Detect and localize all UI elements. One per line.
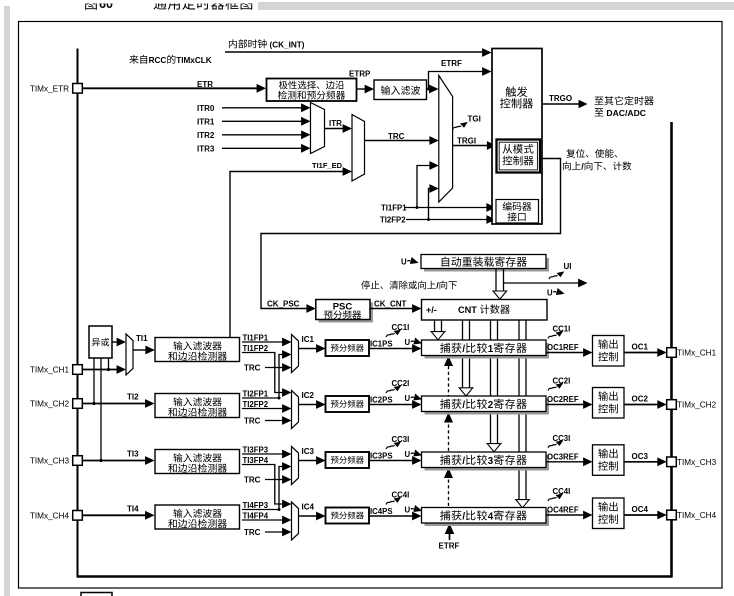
event UI bbox=[549, 271, 564, 279]
wire ITR2 bbox=[222, 134, 304, 136]
mux IC1 selector bbox=[292, 335, 299, 373]
arrow into CCR3 bottom bbox=[444, 468, 453, 478]
pin TIMx_CH4 wire bbox=[82, 514, 147, 516]
wire TI4FP3 bbox=[242, 509, 279, 511]
wire ITR0 bbox=[222, 107, 304, 109]
svg-text:/: / bbox=[462, 512, 465, 523]
wire IC3 bbox=[299, 460, 319, 462]
block prescaler channel 4 预分频器 bbox=[326, 508, 370, 524]
wire ETRF up to trigger controller bbox=[429, 72, 486, 90]
svg-text:3: 3 bbox=[488, 456, 494, 467]
svg-text:U: U bbox=[405, 450, 411, 459]
svg-text:TIMx_CH2: TIMx_CH2 bbox=[677, 401, 717, 410]
arrow into CCR1 bottom bbox=[444, 356, 453, 366]
svg-text:TI1FP1: TI1FP1 bbox=[243, 334, 269, 343]
svg-text:ITR0: ITR0 bbox=[197, 104, 215, 113]
wire TI3FP4 bbox=[242, 465, 285, 505]
event CC1I left bbox=[386, 329, 401, 337]
arrow CNT to CCR3 bbox=[490, 320, 492, 444]
block encoder interface 编码器接口 bbox=[496, 200, 539, 224]
pin TIMx_ETR left bbox=[73, 84, 83, 94]
svg-text:CC2I: CC2I bbox=[553, 377, 571, 386]
wire XOR input from CH1 bbox=[108, 358, 110, 370]
wire IC1PS bbox=[369, 348, 415, 350]
svg-text:4: 4 bbox=[488, 512, 494, 523]
block PSC prescaler bbox=[319, 303, 374, 323]
wire IC2PS bbox=[369, 404, 415, 406]
block input filter 输入滤波 bbox=[374, 80, 427, 100]
arrow CNT to CCR1 bbox=[434, 320, 436, 332]
svg-text:TI3FP3: TI3FP3 bbox=[243, 446, 269, 455]
wire IC4 bbox=[299, 515, 319, 517]
block input filter channel 4 输入滤波器和边沿检测器 bbox=[155, 505, 240, 529]
svg-text:TIMx_CH2: TIMx_CH2 bbox=[30, 400, 70, 409]
event U into CCR3 bbox=[405, 449, 424, 459]
pin TIMx_CH4 left bbox=[73, 511, 83, 521]
label 来自RCC的TIMxCLK bbox=[129, 55, 138, 64]
svg-text:OC4REF: OC4REF bbox=[547, 506, 579, 515]
block polarity selection 极性选择、边沿检测和预分频器 bbox=[267, 79, 357, 102]
pin TIMx_ETR wire ETR bbox=[82, 87, 259, 89]
block capture/compare register 4 捕获/比较4寄存器 bbox=[425, 511, 550, 527]
svg-text:/: / bbox=[462, 344, 465, 355]
svg-text:TRC: TRC bbox=[244, 528, 261, 537]
mux ITR selector bbox=[311, 103, 325, 154]
block trigger controller 触发控制器 bbox=[492, 49, 542, 225]
svg-text:PSC: PSC bbox=[333, 302, 353, 313]
wire TRGI bbox=[453, 145, 490, 147]
svg-text:TI1FP1: TI1FP1 bbox=[381, 204, 407, 213]
svg-text:OC1: OC1 bbox=[632, 343, 649, 352]
svg-text:TRGO: TRGO bbox=[549, 94, 572, 103]
wire TI3FP3 bbox=[242, 453, 285, 455]
svg-text:RCC: RCC bbox=[149, 56, 167, 65]
svg-text:CK_PSC: CK_PSC bbox=[267, 300, 300, 309]
wire ITR3 bbox=[222, 147, 304, 149]
svg-text:ITR2: ITR2 bbox=[197, 131, 215, 140]
svg-text:ETRF: ETRF bbox=[441, 59, 462, 68]
wire XOR input from CH3 bbox=[100, 358, 102, 461]
event U into CCR2 bbox=[405, 393, 424, 403]
svg-text:CC4I: CC4I bbox=[553, 487, 571, 496]
pin TIMx_CH3 wire bbox=[82, 460, 147, 462]
wire XOR output bbox=[112, 341, 120, 343]
wire XOR input from CH2 bbox=[93, 358, 95, 404]
svg-text:OC2REF: OC2REF bbox=[547, 395, 579, 404]
svg-text:OC1REF: OC1REF bbox=[547, 343, 579, 352]
arrow into CCR2 bottom bbox=[444, 412, 453, 422]
block output control channel 2 输出控制 bbox=[593, 388, 625, 419]
svg-text:IC3: IC3 bbox=[302, 447, 315, 456]
block XOR 异或 bbox=[89, 326, 112, 358]
svg-text:TIMx_CH4: TIMx_CH4 bbox=[677, 511, 717, 520]
bottom rail bbox=[77, 575, 673, 578]
svg-text:TIMx_ETR: TIMx_ETR bbox=[30, 84, 69, 93]
wire TI1 bbox=[133, 349, 148, 351]
svg-text:ETRF: ETRF bbox=[439, 542, 460, 551]
wire OC1REF bbox=[546, 352, 586, 354]
wire IC4PS bbox=[369, 515, 415, 517]
svg-text:CC3I: CC3I bbox=[553, 434, 571, 443]
legend box (clipped at bottom) bbox=[81, 593, 112, 596]
event TGI bbox=[453, 122, 468, 130]
svg-text:TIMxCLK: TIMxCLK bbox=[176, 56, 212, 65]
svg-text:IC2PS: IC2PS bbox=[370, 396, 393, 405]
wire TI1FP2 bbox=[242, 353, 285, 393]
wire OC3REF bbox=[546, 461, 586, 463]
block auto-reload register 自动重装载寄存器 bbox=[424, 258, 549, 272]
wire OC4 bbox=[624, 514, 660, 516]
svg-text:CC3I: CC3I bbox=[392, 435, 410, 444]
pin TIMx_CH1 wire bbox=[82, 369, 119, 371]
pin TIMx_CH1 right bbox=[667, 348, 677, 358]
svg-text:/: / bbox=[462, 456, 465, 467]
svg-text:IC2: IC2 bbox=[302, 391, 315, 400]
svg-text:TIMx_CH4: TIMx_CH4 bbox=[30, 511, 70, 520]
event CC1I right bbox=[548, 331, 563, 339]
svg-text:TI4: TI4 bbox=[127, 504, 139, 513]
svg-text:TIMx_CH1: TIMx_CH1 bbox=[677, 349, 717, 358]
mux TRC selector bbox=[352, 115, 365, 182]
wire TRGO bbox=[542, 103, 579, 105]
svg-text:U: U bbox=[401, 258, 407, 267]
svg-text:ETRP: ETRP bbox=[349, 70, 371, 79]
wire OC3 bbox=[624, 461, 660, 463]
svg-text:TI2: TI2 bbox=[127, 393, 139, 402]
label 至 DAC/ADC bbox=[595, 108, 604, 116]
mux TRGI selector bbox=[439, 76, 453, 203]
svg-text:TIMx_CH1: TIMx_CH1 bbox=[30, 366, 70, 375]
wire OC1 bbox=[624, 352, 660, 354]
label 停止、清除或向上/向下 bbox=[361, 281, 370, 290]
svg-text:2: 2 bbox=[488, 400, 494, 411]
wire CK_CNT bbox=[370, 308, 415, 310]
svg-text:CC2I: CC2I bbox=[392, 379, 410, 388]
svg-text:IC3PS: IC3PS bbox=[370, 452, 393, 461]
svg-text:TRGI: TRGI bbox=[457, 137, 476, 146]
scan gray band left bbox=[4, 6, 10, 596]
block capture/compare register 1 捕获/比较1寄存器 bbox=[425, 343, 550, 359]
block input filter channel 2 输入滤波器和边沿检测器 bbox=[155, 394, 240, 418]
wire TI1F_ED bbox=[230, 172, 346, 339]
wire TI4FP3 riser bbox=[279, 467, 285, 510]
event U into CCR1 bbox=[405, 337, 424, 347]
pin TIMx_CH2 right bbox=[667, 400, 677, 410]
svg-text:U: U bbox=[547, 289, 553, 298]
wire CK_INT to trigger controller bbox=[225, 51, 485, 53]
wire OC2 bbox=[624, 404, 660, 406]
pin TIMx_CH1 left bbox=[73, 365, 83, 375]
wire TI4FP4 bbox=[242, 519, 285, 521]
pin TIMx_CH3 left bbox=[73, 456, 83, 466]
wire update event bbox=[504, 282, 579, 284]
svg-text:CNT: CNT bbox=[458, 305, 479, 315]
svg-text:U: U bbox=[405, 394, 411, 403]
svg-text:TGI: TGI bbox=[468, 115, 481, 124]
svg-text:TRC: TRC bbox=[388, 132, 405, 141]
wire OC4REF bbox=[546, 514, 586, 516]
event CC4I left bbox=[386, 497, 401, 505]
svg-text:CC4I: CC4I bbox=[392, 491, 410, 500]
block CNT counter bbox=[422, 300, 548, 321]
block capture/compare register 3 捕获/比较3寄存器 bbox=[425, 455, 550, 471]
svg-text:IC4: IC4 bbox=[302, 503, 315, 512]
scan gray band top bbox=[258, 2, 734, 10]
wire IC3PS bbox=[369, 460, 415, 462]
block output control channel 1 输出控制 bbox=[593, 336, 625, 367]
wire OC2REF bbox=[546, 404, 586, 406]
wire ETRF to TRGI mux bbox=[426, 88, 433, 90]
block capture/compare register 2 捕获/比较2寄存器 bbox=[425, 399, 550, 415]
svg-text:TI4FP3: TI4FP3 bbox=[243, 501, 269, 510]
wire TI1FP1 net bbox=[405, 207, 489, 209]
wire ETRP bbox=[357, 88, 368, 90]
svg-text:ITR3: ITR3 bbox=[197, 145, 215, 154]
event CC3I right bbox=[548, 440, 563, 448]
wire ITR1 bbox=[222, 120, 304, 122]
svg-text:TI2FP1: TI2FP1 bbox=[243, 390, 269, 399]
svg-text:CC1I: CC1I bbox=[392, 323, 410, 332]
wire ITR bbox=[325, 128, 346, 130]
wire TI2FP2 bbox=[242, 408, 285, 410]
block input filter channel 1 输入滤波器和边沿检测器 bbox=[155, 338, 240, 362]
mux IC4 selector bbox=[292, 502, 299, 540]
wire IC2 bbox=[299, 404, 319, 406]
svg-text:OC2: OC2 bbox=[632, 395, 649, 404]
svg-text:OC3: OC3 bbox=[632, 452, 649, 461]
svg-text:ITR1: ITR1 bbox=[197, 118, 215, 127]
svg-text:TI2FP2: TI2FP2 bbox=[380, 216, 406, 225]
block slave mode controller 从模式控制器 bbox=[497, 140, 541, 173]
svg-text:U: U bbox=[405, 506, 411, 515]
block prescaler channel 1 预分频器 bbox=[326, 340, 370, 356]
pin TIMx_CH2 left bbox=[73, 399, 83, 409]
mux IC2 selector bbox=[292, 391, 299, 429]
event U lower bbox=[547, 288, 566, 298]
wire ETRF bottom into CCR4 bbox=[445, 523, 455, 534]
right pin rail bbox=[670, 122, 673, 577]
block prescaler channel 3 预分频器 bbox=[326, 452, 370, 468]
svg-text:U: U bbox=[405, 338, 411, 347]
mux IC3 selector bbox=[292, 447, 299, 485]
svg-text:TIMx_CH3: TIMx_CH3 bbox=[30, 457, 70, 466]
svg-text:TRC: TRC bbox=[244, 417, 261, 426]
block output control channel 4 输出控制 bbox=[593, 498, 625, 529]
svg-text:DAC/ADC: DAC/ADC bbox=[604, 108, 646, 118]
block input filter channel 3 输入滤波器和边沿检测器 bbox=[155, 450, 240, 474]
wire TI1FP1 bbox=[242, 341, 285, 343]
wire slave mode controller to CK_PSC bbox=[261, 159, 561, 309]
pin TIMx_CH2 wire bbox=[82, 403, 147, 405]
svg-text:OC3REF: OC3REF bbox=[547, 452, 579, 461]
mux TI1 selector bbox=[126, 334, 133, 375]
svg-text:ITR: ITR bbox=[329, 119, 342, 128]
pin TIMx_CH4 right bbox=[667, 510, 677, 520]
left pin rail bbox=[76, 49, 78, 577]
event CC2I left bbox=[386, 385, 401, 393]
svg-text:OC4: OC4 bbox=[632, 505, 649, 514]
arrow CNT to CCR2 bbox=[462, 320, 464, 388]
block prescaler channel 2 预分频器 bbox=[326, 396, 370, 412]
label 至其它定时器 bbox=[595, 97, 604, 105]
svg-text:IC4PS: IC4PS bbox=[370, 507, 393, 516]
svg-text:TRC: TRC bbox=[244, 364, 261, 373]
wire IC1 bbox=[299, 348, 319, 350]
event CC3I left bbox=[386, 441, 401, 449]
svg-text:+/-: +/- bbox=[426, 305, 437, 315]
event U into CCR4 bbox=[405, 505, 424, 515]
svg-text:UI: UI bbox=[564, 262, 572, 271]
label 复位、使能、向上/向下、计数 bbox=[566, 149, 575, 158]
block output control channel 3 输出控制 bbox=[593, 445, 625, 476]
event U into ARR bbox=[401, 257, 420, 267]
svg-text:ETR: ETR bbox=[197, 80, 213, 89]
svg-text:TI1: TI1 bbox=[136, 334, 148, 343]
wire TRC bbox=[365, 140, 433, 142]
dashed compare line bbox=[448, 366, 450, 396]
svg-text:TRC: TRC bbox=[244, 476, 261, 485]
svg-text:CK_CNT: CK_CNT bbox=[374, 300, 407, 309]
svg-text:(CK_INT): (CK_INT) bbox=[267, 41, 305, 50]
svg-text:TI3: TI3 bbox=[127, 450, 139, 459]
svg-text:CC1I: CC1I bbox=[553, 325, 571, 334]
svg-text:IC1: IC1 bbox=[302, 335, 315, 344]
wire TI2FP2 net bbox=[406, 219, 489, 221]
svg-text:TIMx_CH3: TIMx_CH3 bbox=[677, 458, 717, 467]
wire TI2FP1 riser bbox=[279, 355, 285, 399]
wire TI2FP1 bbox=[242, 397, 279, 399]
arrow CNT to CCR4 bbox=[518, 320, 520, 500]
svg-text:/: / bbox=[462, 400, 465, 411]
arrow ARR to CNT bbox=[495, 269, 497, 292]
pin TIMx_CH3 right bbox=[667, 457, 677, 467]
svg-text:TI1F_ED: TI1F_ED bbox=[312, 161, 343, 170]
label 内部时钟 (CK_INT) bbox=[229, 39, 237, 48]
event CC2I right bbox=[548, 383, 563, 391]
svg-text:IC1PS: IC1PS bbox=[370, 340, 393, 349]
event CC4I right bbox=[548, 493, 563, 501]
figure caption (clipped at top) bbox=[85, 0, 97, 10]
svg-text:1: 1 bbox=[488, 344, 494, 355]
